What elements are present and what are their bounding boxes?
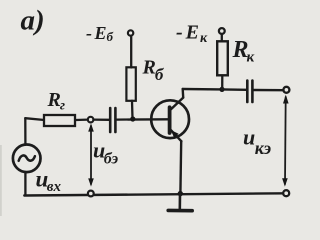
collector wire to Rk junction [183,88,222,91]
voltage arrow ube [90,126,92,184]
wire left corner to Rg [25,118,43,120]
emitter arrowhead PNP [171,130,179,138]
resistor Rg [44,115,75,126]
junction collector node [219,87,224,92]
collector vertical to corner [181,89,184,98]
wire Rk bottom to junction [221,76,223,89]
wire C2 to output terminal [254,89,284,92]
gutter shadow left edge [0,145,2,216]
resistor Rb [126,67,135,101]
emitter wire down [179,141,182,194]
terminal circle bottom right [283,190,289,196]
wire Ek terminal to Rk [221,34,223,41]
wire junction to capacitor C2 [222,88,246,91]
capacitor C2 [246,81,249,103]
collector diagonal [171,98,184,110]
capacitor C1 [109,108,112,132]
wire down to AC source [24,118,26,144]
wire AC source to bottom wire [24,173,26,195]
transistor base bar [168,107,172,133]
terminal circle bottom left [88,191,94,197]
emitter diagonal [171,130,182,141]
bottom wire [24,193,286,195]
svg-text:а): а) [21,5,45,37]
resistor Rk [217,41,228,75]
junction base node [130,116,135,121]
terminal -Eb [128,30,133,35]
wire Eb terminal to Rb top [130,36,132,68]
AC source uvx [13,145,41,173]
node circle ube top [88,117,94,123]
wire Rg to node [76,118,88,121]
transistor Q1 body [151,100,189,138]
wire base node circle to capacitor C1 [93,118,109,121]
junction ground node [178,191,183,196]
voltage arrow uke [284,97,287,184]
ground stem [179,194,182,210]
wire Rb bottom to base node [131,101,134,119]
terminal circle top right [283,87,289,93]
terminal -Ek [219,28,225,34]
wire C1 to transistor base [117,118,169,121]
ground bar [168,209,192,213]
